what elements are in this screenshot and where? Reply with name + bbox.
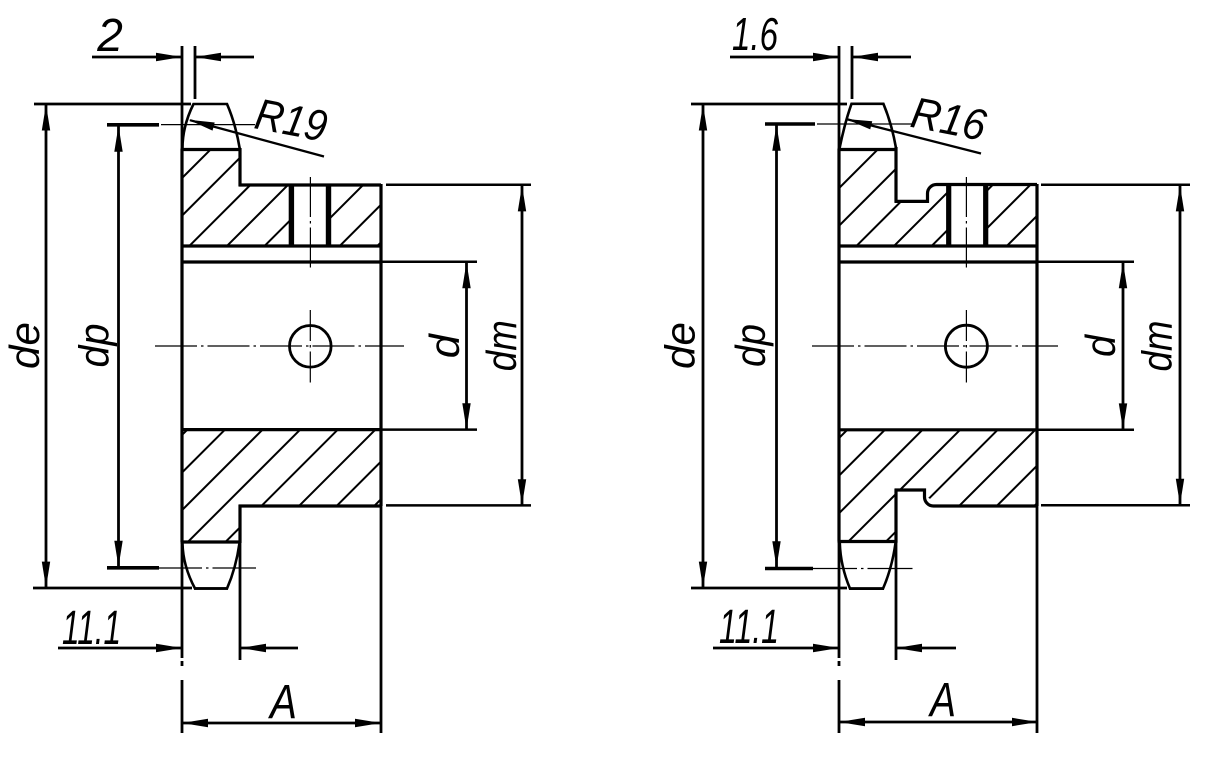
right plate right face top segment [894,147,897,203]
left dp top tick [107,123,159,127]
right hub hole centerline [965,177,967,270]
left hub hole centerline [309,177,311,270]
right dimension 1.6: right extension line [851,46,854,99]
left de bottom extension line [33,587,192,590]
left R19 label [251,90,331,152]
left dimension A: line and arrows [183,722,380,725]
right de bottom extension line [691,587,847,590]
right horizontal main centerline [812,345,1058,347]
left top tooth root line [181,148,242,151]
right bore bottom line [839,428,1037,431]
right dp top tick [765,122,815,126]
left dimension 2: right extension line [194,46,197,99]
right R16 label [907,88,990,151]
left dp bottom tick [107,566,159,570]
left bore top line [182,260,381,263]
right de dimension line with arrows [702,105,705,587]
left de top extension line [34,103,191,106]
left plate left face with extension lines [181,46,184,658]
right bottom step profile [895,490,1038,506]
left d top extension line [381,261,477,264]
right sprocket: hatched plate section (top) [701,144,1109,251]
svg-text:de: de [657,322,704,369]
left top tooth profile [182,104,240,150]
left plate small circle hole [290,326,332,368]
right circle vertical centerline [965,310,967,385]
svg-text:dp: dp [727,324,774,367]
svg-text:A: A [267,676,297,729]
right top step profile [895,185,1038,202]
right keyway top line [839,244,1037,247]
right top tooth root line [838,148,898,151]
left dimension 2: line and arrows [92,56,181,59]
left sprocket: hatched plate section (top) [72,144,480,251]
left horizontal main centerline [155,345,404,347]
left hub bottom edge [239,504,382,507]
right hub right face + extension down [1035,184,1038,506]
right dimension A: line and arrows [840,721,1037,724]
left sprocket: hub set-screw hole white gap [294,184,326,247]
right dp dimension line with arrows [775,125,778,568]
right dp bottom tick [765,567,813,571]
svg-text:d: d [1077,333,1124,357]
svg-text:11.1: 11.1 [719,601,779,654]
left dm top extension line [386,183,531,186]
left bottom pitch centerline [157,567,256,569]
right R16 leader line and arrow [847,119,981,153]
svg-text:1.6: 1.6 [732,8,778,60]
left hub radial hole edges [289,185,294,246]
left d dimension line with arrows [465,263,468,429]
left bottom tooth profile [183,543,240,589]
svg-text:A: A [928,674,956,727]
right plate small circle hole [945,325,987,367]
right dimension 11.1: lines and arrows [713,647,838,650]
right d top extension line [1037,261,1134,264]
left circle vertical centerline [309,310,311,384]
svg-text:dm: dm [1134,321,1181,372]
right bottom pitch centerline [812,568,913,570]
svg-text:dp: dp [71,324,118,368]
left bore bottom line [182,428,381,431]
left keyway top line [182,244,381,247]
right dm top extension line [1041,183,1190,186]
right sprocket: hub set-screw hole white gap [951,183,984,247]
svg-text:2: 2 [96,9,123,61]
left hub top edge [239,183,382,186]
svg-text:dm: dm [478,320,525,371]
right plate right face bottom segment + extension [894,489,897,543]
svg-text:d: d [421,333,468,359]
right de top extension line [691,103,847,106]
right bottom tooth root line [838,540,898,543]
left d bottom extension line [381,428,477,431]
left R19 leader line and arrow [190,120,324,156]
left dimension 11.1: lines and arrows [58,647,181,650]
svg-text:11.1: 11.1 [62,602,121,655]
left plate right face bottom segment + extension [238,505,241,543]
left top pitch line (thin) [161,124,255,126]
svg-text:de: de [1,322,48,369]
right plate left face with extension lines [838,46,841,658]
right dm bottom extension line [1041,504,1190,507]
right bore top line [839,260,1037,263]
left dm bottom extension line [386,504,531,507]
right dm dimension line with arrows [1179,186,1182,505]
right d dimension line with arrows [1122,263,1125,429]
right sprocket: hatched section (bottom) [693,425,1153,547]
right d bottom extension line [1037,429,1134,432]
left de dimension line with arrows [45,105,48,587]
left dm dimension line with arrows [521,186,524,505]
right top pitch line (thin) [817,123,912,125]
left bottom tooth root line [181,540,242,543]
left sprocket: hatched section (bottom) [32,425,492,547]
left dp dimension line with arrows [117,126,120,567]
right hub radial hole edges [946,185,951,247]
right bottom tooth profile [840,543,896,589]
left hub right face + extension down [379,184,382,506]
right dimension 1.6: line and arrows [730,56,838,59]
left plate right face top segment [238,148,241,186]
right top tooth profile [840,104,897,149]
